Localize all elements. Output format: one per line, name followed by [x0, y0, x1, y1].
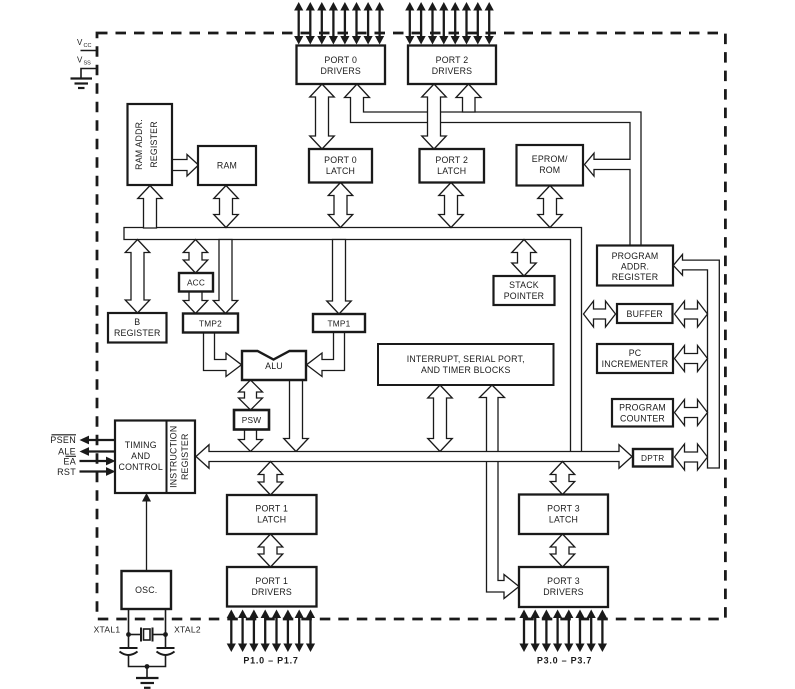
- svg-text:COUNTER: COUNTER: [620, 414, 665, 424]
- chip boundary dashed border: [97, 33, 725, 619]
- svg-text:INCREMENTER: INCREMENTER: [602, 359, 669, 369]
- pin arrow P2.0: [409, 9, 411, 39]
- ground VSS: [71, 77, 93, 79]
- pin arrow P3.6: [590, 616, 592, 646]
- svg-text:EPROM/: EPROM/: [532, 154, 568, 164]
- arrow PSEN out: [89, 439, 116, 441]
- box PORT 2 LATCH: [420, 149, 485, 183]
- svg-text:LATCH: LATCH: [549, 515, 578, 525]
- svg-text:PORT 2: PORT 2: [436, 55, 469, 65]
- arrow PROGRAM COUNTER right to loop: [675, 400, 708, 426]
- wire XTAL1 leg: [128, 609, 130, 648]
- box STACK POINTER: [494, 276, 555, 305]
- pin arrow P0.1: [309, 9, 311, 39]
- arrow PORT 1 LATCH to PORT 1 DRIVERS: [258, 534, 283, 567]
- svg-text:CONTROL: CONTROL: [119, 462, 163, 472]
- arrow bus to RAM: [214, 186, 239, 228]
- pin arrow P3.4: [568, 616, 570, 646]
- svg-text:TMP1: TMP1: [328, 319, 351, 329]
- internal data bus bar with vertical channel: [124, 228, 582, 452]
- arrow rail to PORT 3 LATCH: [550, 462, 575, 495]
- svg-text:INSTRUCTION: INSTRUCTION: [169, 426, 179, 488]
- op-block ALU: [242, 351, 306, 380]
- svg-text:EA: EA: [63, 457, 76, 467]
- arrow bus to TMP1: [327, 240, 352, 315]
- svg-text:PORT 3: PORT 3: [547, 504, 580, 514]
- pin arrow P2.3: [443, 9, 445, 39]
- arrow RAM ADDR REGISTER to RAM: [172, 155, 199, 177]
- ground crystal: [136, 677, 159, 679]
- svg-text:PORT 3: PORT 3: [547, 576, 580, 586]
- main control rail double arrow (instruction register to DPTR): [196, 445, 632, 469]
- box PC INCREMENTER: [597, 344, 673, 373]
- arrow bus to ACC: [183, 240, 208, 274]
- svg-text:PROGRAM: PROGRAM: [619, 403, 666, 413]
- crystal Y1: [129, 634, 141, 636]
- box PROGRAM ADDR REGISTER: [597, 246, 673, 286]
- arrow RST in: [80, 470, 108, 472]
- pin arrow P2.4: [454, 9, 456, 39]
- arrow BUFFER left to internal bus channel: [584, 301, 616, 327]
- arrow bus to PORT 0 LATCH: [328, 183, 353, 228]
- svg-text:REGISTER: REGISTER: [612, 272, 659, 282]
- svg-text:AND: AND: [131, 451, 150, 461]
- wire address bus from PROGRAM ADDR REGISTER to PORT 0 DRIVERS with branch arrow into EPROM/ROM: [345, 84, 642, 246]
- pin arrow P2.1: [420, 9, 422, 39]
- svg-text:RAM: RAM: [217, 161, 237, 171]
- box INTERRUPT SERIAL PORT AND TIMER BLOCKS: [378, 344, 554, 385]
- box TMP2: [183, 314, 238, 333]
- svg-text:PC: PC: [629, 348, 642, 358]
- arrow bus to EPROM/ROM: [538, 186, 563, 228]
- node XTAL2 junction: [163, 632, 168, 637]
- svg-text:LATCH: LATCH: [326, 166, 355, 176]
- wire VSS pin stub: [81, 69, 97, 79]
- arrow ALU down to main rail: [284, 380, 309, 452]
- svg-text:DRIVERS: DRIVERS: [543, 587, 584, 597]
- box ACC: [179, 273, 213, 292]
- box PORT 3 DRIVERS: [519, 567, 608, 607]
- arrow rail to PORT 1 LATCH: [258, 462, 283, 496]
- pin arrow P1.3: [264, 616, 266, 646]
- svg-text:ROM: ROM: [539, 165, 560, 175]
- divider instruction register: [166, 421, 168, 494]
- svg-text:CC: CC: [84, 43, 92, 49]
- node XTAL1 junction: [126, 632, 131, 637]
- pin arrow P1.7: [309, 616, 311, 646]
- pin arrow P3.5: [579, 616, 581, 646]
- arrow PORT 0 DRIVERS to PORT 0 LATCH: [310, 84, 335, 149]
- pin arrow P2.6: [477, 9, 479, 39]
- pin arrow P1.5: [287, 616, 289, 646]
- arrow ACC to TMP2: [183, 292, 208, 314]
- svg-text:ALU: ALU: [265, 361, 283, 371]
- svg-text:PSEN: PSEN: [50, 435, 76, 445]
- box B REGISTER: [108, 313, 167, 343]
- arrow DPTR right to loop: [675, 444, 708, 470]
- box PORT 3 LATCH: [519, 495, 608, 535]
- svg-text:ACC: ACC: [187, 278, 205, 288]
- pin arrow P0.2: [321, 9, 323, 39]
- pin arrow P1.1: [241, 616, 243, 646]
- svg-text:REGISTER: REGISTER: [114, 328, 161, 338]
- pin arrow P0.0: [298, 9, 300, 39]
- svg-text:XTAL2: XTAL2: [174, 625, 201, 635]
- arrow ALU to PSW: [239, 380, 263, 410]
- pin arrow P0.4: [344, 9, 346, 39]
- pin arrow P1.0: [230, 616, 232, 646]
- pin arrow P1.4: [275, 616, 277, 646]
- box PORT 0 DRIVERS: [297, 46, 386, 85]
- svg-text:PORT 1: PORT 1: [255, 576, 288, 586]
- svg-text:BUFFER: BUFFER: [627, 309, 663, 319]
- wire capacitors to ground rail: [129, 656, 166, 667]
- svg-text:DRIVERS: DRIVERS: [432, 66, 473, 76]
- box PORT 1 DRIVERS: [227, 567, 317, 607]
- svg-text:RST: RST: [57, 467, 76, 477]
- pin arrow P3.1: [534, 616, 536, 646]
- box RAM ADDR REGISTER: [128, 104, 173, 185]
- box DPTR: [633, 449, 673, 467]
- pin arrow P2.2: [431, 9, 433, 39]
- svg-text:PORT 1: PORT 1: [255, 504, 288, 514]
- pin arrow P3.3: [556, 616, 558, 646]
- box RAM: [198, 146, 256, 185]
- pin arrow P3.0: [523, 616, 525, 646]
- svg-text:SS: SS: [84, 61, 92, 67]
- pin arrow P2.5: [465, 9, 467, 39]
- svg-text:OSC.: OSC.: [135, 585, 157, 595]
- capacitor C1: [120, 647, 138, 649]
- pin arrow P3.7: [601, 616, 603, 646]
- box EPROM/ROM: [517, 145, 584, 186]
- box OSC: [122, 571, 172, 609]
- box PSW: [234, 410, 269, 430]
- arrow PORT 3 LATCH to PORT 3 DRIVERS: [550, 534, 575, 567]
- pin arrow P0.5: [355, 9, 357, 39]
- arrow TMP1 to ALU (L path with open head): [307, 332, 345, 377]
- arrow INTERRUPT block to main rail: [428, 385, 453, 452]
- svg-text:PROGRAM: PROGRAM: [612, 251, 659, 261]
- wire OSC to TIMING AND CONTROL: [146, 500, 148, 571]
- pin arrow P0.3: [332, 9, 334, 39]
- arrow PORT 2 DRIVERS to PORT 2 LATCH: [422, 84, 447, 149]
- pin arrow P2.7: [488, 9, 490, 39]
- box TIMING AND CONTROL / INSTRUCTION REGISTER: [115, 421, 195, 494]
- arrow BUFFER right to loop: [675, 301, 708, 327]
- arrow INTERRUPT block to PORT 3 DRIVERS (double-headed L path): [480, 385, 520, 599]
- arrow bus to B REGISTER: [125, 240, 150, 314]
- wire right loop with arrow into PROGRAM ADDR REGISTER: [673, 254, 719, 468]
- arrow bus to PORT 2 LATCH: [439, 183, 464, 228]
- svg-text:TMP2: TMP2: [199, 319, 222, 329]
- svg-text:PSW: PSW: [242, 415, 262, 425]
- svg-text:AND TIMER BLOCKS: AND TIMER BLOCKS: [421, 365, 511, 375]
- pin arrow P1.6: [298, 616, 300, 646]
- svg-text:V: V: [77, 56, 83, 65]
- svg-text:STACK: STACK: [509, 280, 539, 290]
- svg-text:ADDR.: ADDR.: [621, 262, 649, 272]
- box BUFFER: [617, 304, 673, 323]
- arrow bus to RAM ADDR REGISTER: [138, 186, 163, 229]
- arrow ALE out: [89, 450, 116, 452]
- box PROGRAM COUNTER: [612, 399, 673, 427]
- box PORT 0 LATCH: [309, 149, 372, 183]
- svg-text:DRIVERS: DRIVERS: [320, 66, 361, 76]
- box TMP1: [313, 314, 365, 332]
- wire XTAL2 leg: [165, 609, 167, 648]
- box PORT 1 LATCH: [227, 495, 317, 534]
- arrow PC INCREMENTER right to loop: [675, 346, 708, 372]
- svg-text:REGISTER: REGISTER: [149, 121, 159, 168]
- svg-text:ALE: ALE: [58, 447, 76, 457]
- svg-text:V: V: [77, 38, 83, 47]
- svg-text:P1.0 – P1.7: P1.0 – P1.7: [243, 656, 298, 666]
- svg-text:INTERRUPT, SERIAL PORT,: INTERRUPT, SERIAL PORT,: [407, 354, 525, 364]
- svg-text:PORT 2: PORT 2: [435, 155, 468, 165]
- svg-text:LATCH: LATCH: [437, 166, 466, 176]
- svg-text:POINTER: POINTER: [504, 291, 545, 301]
- capacitor C2: [157, 647, 175, 649]
- svg-text:LATCH: LATCH: [257, 515, 286, 525]
- arrow bus to STACK POINTER: [512, 240, 537, 277]
- svg-text:PORT 0: PORT 0: [324, 55, 357, 65]
- svg-text:REGISTER: REGISTER: [180, 433, 190, 480]
- pin arrow P1.2: [253, 616, 255, 646]
- wire ground stub: [146, 667, 148, 678]
- svg-text:B: B: [134, 317, 140, 327]
- svg-text:P3.0 – P3.7: P3.0 – P3.7: [537, 656, 592, 666]
- svg-text:RAM ADDR.: RAM ADDR.: [134, 119, 144, 170]
- svg-text:DRIVERS: DRIVERS: [251, 587, 292, 597]
- svg-text:XTAL1: XTAL1: [94, 625, 121, 635]
- svg-text:DPTR: DPTR: [641, 453, 664, 463]
- box PORT 2 DRIVERS: [408, 46, 496, 85]
- node ground junction: [145, 664, 150, 669]
- arrow EA in: [80, 460, 108, 462]
- arrow PSW down to main rail: [239, 430, 263, 452]
- svg-text:PORT 0: PORT 0: [324, 155, 357, 165]
- arrow bus to TMP2: [213, 240, 238, 314]
- pin arrow P0.6: [367, 9, 369, 39]
- arrow TMP2 to ALU (L path with open head): [204, 333, 242, 377]
- wire VCC pin stub: [81, 50, 98, 52]
- pin arrow P3.2: [545, 616, 547, 646]
- svg-text:TIMING: TIMING: [125, 440, 157, 450]
- arrow address rail up into PORT 2 DRIVERS: [456, 84, 481, 112]
- pin arrow P0.7: [378, 9, 380, 39]
